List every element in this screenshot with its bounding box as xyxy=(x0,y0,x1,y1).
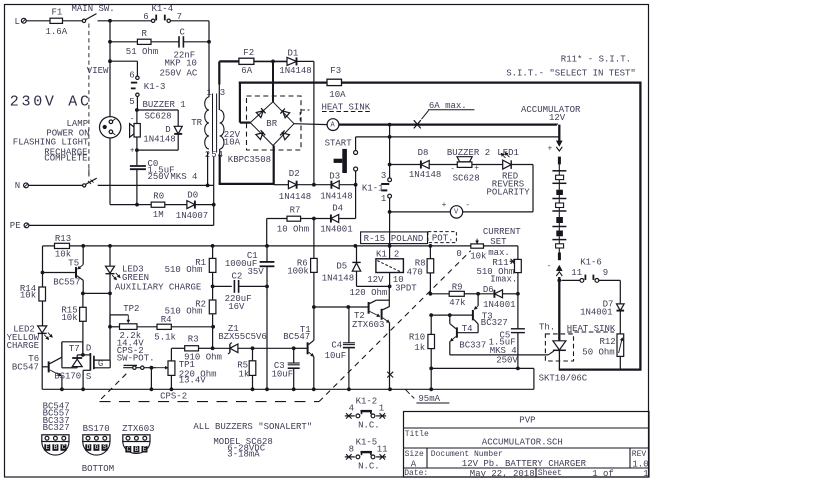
svg-text:D0: D0 xyxy=(187,191,198,201)
svg-text:S: S xyxy=(103,444,107,451)
svg-text:K1-6: K1-6 xyxy=(580,258,602,268)
svg-text:C4: C4 xyxy=(331,341,342,351)
svg-text:VIEW: VIEW xyxy=(87,66,109,76)
svg-text:D3: D3 xyxy=(329,172,340,182)
svg-text:START: START xyxy=(325,139,353,149)
svg-text:POT.: POT. xyxy=(432,234,454,244)
wire bus to START node xyxy=(389,125,391,137)
wire R10 bottom to rail corner xyxy=(431,367,534,369)
svg-text:Title: Title xyxy=(405,430,429,439)
wire R to C xyxy=(151,41,179,43)
svg-text:Sheet: Sheet xyxy=(538,469,562,478)
bridge feed thick wire xyxy=(272,61,274,101)
svg-text:1N4001: 1N4001 xyxy=(320,225,352,235)
svg-text:K1-5: K1-5 xyxy=(356,437,378,447)
svg-text:+: + xyxy=(474,164,479,173)
svg-text:TP1: TP1 xyxy=(179,360,195,370)
svg-text:KBPC3508: KBPC3508 xyxy=(228,155,271,165)
svg-text:BUZZER 1: BUZZER 1 xyxy=(143,100,186,110)
svg-text:SC628: SC628 xyxy=(145,112,172,122)
svg-text:BC337: BC337 xyxy=(459,340,486,350)
wire F2 to D1 node xyxy=(254,60,287,62)
trimmer TP1 220 Ohm xyxy=(170,348,172,361)
svg-text:K1-2: K1-2 xyxy=(356,396,378,406)
svg-text:6A: 6A xyxy=(241,66,252,76)
svg-text:BC327: BC327 xyxy=(481,318,508,328)
svg-text:D: D xyxy=(86,344,91,354)
supply rail wire xyxy=(43,245,55,247)
svg-text:D8: D8 xyxy=(418,148,429,158)
svg-text:250V: 250V xyxy=(496,355,518,365)
svg-text:R10: R10 xyxy=(409,333,425,343)
svg-text:T7: T7 xyxy=(69,344,80,354)
svg-text:ALL BUZZERS "SONALERT": ALL BUZZERS "SONALERT" xyxy=(193,422,312,432)
main positive bus thick to right border xyxy=(342,81,641,83)
svg-text:L: L xyxy=(15,17,20,27)
svg-text:250V AC: 250V AC xyxy=(160,69,198,79)
svg-text:N: N xyxy=(15,181,20,191)
svg-text:2: 2 xyxy=(394,250,399,260)
wire MAIN SW to node xyxy=(98,20,152,22)
svg-text:ACCUMULATOR.SCH: ACCUMULATOR.SCH xyxy=(482,438,563,448)
svg-text:10A: 10A xyxy=(329,90,346,100)
svg-text:C: C xyxy=(180,28,186,38)
svg-text:+: + xyxy=(442,201,447,210)
wire START bottom xyxy=(355,171,357,185)
wire N to TR pin2 xyxy=(98,184,214,186)
svg-text:0: 0 xyxy=(456,249,461,259)
svg-text:SW-POT.: SW-POT. xyxy=(117,354,155,364)
node R-C tap xyxy=(108,40,112,44)
svg-text:K1: K1 xyxy=(376,250,387,260)
svg-text:1N4148: 1N4148 xyxy=(279,192,311,202)
svg-text:Th.: Th. xyxy=(539,323,555,333)
svg-text:12V: 12V xyxy=(367,275,384,285)
svg-text:120 Ohm: 120 Ohm xyxy=(350,288,388,298)
svg-text:MAIN SW.: MAIN SW. xyxy=(72,4,115,14)
svg-text:BR: BR xyxy=(266,119,277,129)
wire N to switch xyxy=(28,184,82,186)
svg-text:COMPLETE: COMPLETE xyxy=(44,154,87,164)
wire TR screen pin5 xyxy=(213,157,215,205)
svg-text:13.4V: 13.4V xyxy=(179,376,207,386)
svg-text:ZTX603: ZTX603 xyxy=(352,320,384,330)
svg-text:3-18mA: 3-18mA xyxy=(227,450,260,460)
wire F1 to MAIN SW xyxy=(63,20,83,22)
svg-text:E: E xyxy=(46,444,50,451)
svg-text:12V: 12V xyxy=(549,113,566,123)
wire LED1 to corner xyxy=(511,164,533,166)
wire L to F1 xyxy=(26,20,50,22)
svg-text:8: 8 xyxy=(349,445,354,455)
svg-text:F3: F3 xyxy=(330,66,341,76)
svg-text:-: - xyxy=(130,114,135,123)
svg-text:10k: 10k xyxy=(470,251,486,261)
wire bridge bottom vertex thick xyxy=(273,146,275,185)
wire D0 to TR pin5 node xyxy=(195,204,214,206)
note box POT dashed xyxy=(428,232,457,243)
svg-text:K1-4: K1-4 xyxy=(152,4,174,14)
switch MAIN SW pole N xyxy=(83,184,86,187)
wire TR pin2 to N xyxy=(207,152,209,185)
svg-text:D5: D5 xyxy=(336,262,347,272)
svg-text:51 Ohm: 51 Ohm xyxy=(126,47,158,57)
wire bus corner to battery + connector xyxy=(556,124,558,125)
svg-text:F2: F2 xyxy=(243,48,254,58)
svg-text:POLAND: POLAND xyxy=(391,234,423,244)
svg-text:10A: 10A xyxy=(224,138,241,148)
svg-text:PVP: PVP xyxy=(519,416,535,426)
X mark on T2 emitter xyxy=(387,372,393,378)
svg-text:510 Ohm: 510 Ohm xyxy=(165,265,203,275)
node L-switched xyxy=(108,19,112,23)
svg-text:TR: TR xyxy=(191,118,202,128)
wire buzzer bottom row xyxy=(135,148,139,152)
wire lamp/C0 to R0 row xyxy=(110,204,137,206)
note box R-15 POLAND xyxy=(361,232,428,244)
title block frame xyxy=(404,412,650,478)
svg-text:R12: R12 xyxy=(600,337,616,347)
svg-text:T4: T4 xyxy=(462,324,473,334)
svg-text:D: D xyxy=(87,444,91,451)
svg-text:MKS 4: MKS 4 xyxy=(170,172,197,182)
svg-text:G: G xyxy=(98,359,103,369)
svg-text:MKP 10: MKP 10 xyxy=(165,59,197,69)
svg-text:1: 1 xyxy=(379,404,384,414)
svg-text:12V Pb. BATTERY CHARGER: 12V Pb. BATTERY CHARGER xyxy=(462,459,587,469)
svg-text:C: C xyxy=(62,444,66,451)
svg-text:D1: D1 xyxy=(288,49,299,59)
svg-text:G: G xyxy=(95,444,99,451)
svg-text:10uF: 10uF xyxy=(272,370,294,380)
svg-text:1k: 1k xyxy=(239,370,250,380)
svg-text:50 Ohm: 50 Ohm xyxy=(582,347,614,357)
node T5 emitter xyxy=(81,292,85,296)
ground/return rail bottom xyxy=(42,388,534,390)
svg-text:1N4148: 1N4148 xyxy=(409,170,441,180)
svg-text:N.C.: N.C. xyxy=(358,421,380,431)
fuse blow mark 6A max xyxy=(414,120,421,128)
svg-text:1M: 1M xyxy=(153,210,164,220)
wire node to R xyxy=(109,21,111,61)
svg-text:D: D xyxy=(165,125,170,135)
ammeter A on heat sink xyxy=(327,119,339,131)
svg-text:K1-1: K1-1 xyxy=(362,184,384,194)
svg-text:R11* - S.I.T.: R11* - S.I.T. xyxy=(561,55,631,65)
svg-text:1N4148: 1N4148 xyxy=(322,273,354,283)
right border return wire thick xyxy=(639,82,641,370)
svg-text:1N4007: 1N4007 xyxy=(176,211,208,221)
wire K1-1 vertical xyxy=(389,137,391,178)
svg-text:-: - xyxy=(450,165,455,174)
svg-text:1N4001: 1N4001 xyxy=(580,308,612,318)
svg-text:TP2: TP2 xyxy=(123,304,139,314)
svg-text:REV: REV xyxy=(632,450,647,459)
svg-text:MKS 4: MKS 4 xyxy=(490,346,517,356)
wire PE to screen xyxy=(29,224,214,226)
wire D3 to START node xyxy=(339,184,355,186)
svg-text:Size: Size xyxy=(405,450,424,459)
svg-text:16V: 16V xyxy=(228,302,245,312)
svg-text:Imax.: Imax. xyxy=(490,275,517,285)
svg-text:10 Ohm: 10 Ohm xyxy=(277,225,309,235)
wire K1-3 to buzzer node xyxy=(136,97,138,111)
wire R7 to rail via C1 column xyxy=(266,219,268,246)
svg-text:N.C.: N.C. xyxy=(358,462,380,472)
svg-text:3PDT: 3PDT xyxy=(395,284,417,294)
wire to K1-3 xyxy=(108,59,112,63)
svg-text:-: - xyxy=(465,201,470,210)
svg-text:510 Ohm: 510 Ohm xyxy=(165,306,203,316)
svg-text:10uF: 10uF xyxy=(325,351,347,361)
svg-text:3: 3 xyxy=(220,88,225,98)
svg-text:BZX55C5V6: BZX55C5V6 xyxy=(218,332,267,342)
fuse F2 6A xyxy=(219,60,239,62)
diode D7 1N4001 xyxy=(619,280,621,304)
svg-text:6: 6 xyxy=(129,70,134,80)
svg-text:ZTX603: ZTX603 xyxy=(122,424,154,434)
mosfet gate box G xyxy=(94,359,110,361)
wire T1 collector to T2 base xyxy=(314,306,348,308)
svg-text:11: 11 xyxy=(377,445,388,455)
svg-text:R-15: R-15 xyxy=(364,234,386,244)
svg-text:R0: R0 xyxy=(153,192,164,202)
wire rail left leg down xyxy=(42,246,44,287)
svg-text:C: C xyxy=(127,446,131,453)
svg-text:E: E xyxy=(143,446,147,453)
wire D5 to K1 coil bottom xyxy=(357,285,390,287)
svg-text:250V: 250V xyxy=(148,172,170,182)
wire battery to thyristor thick xyxy=(558,277,560,341)
svg-text:BC547: BC547 xyxy=(12,362,39,372)
capacitor C0 1.5uF xyxy=(136,150,138,165)
sheet border frame xyxy=(5,5,649,478)
wire R0 to D0 xyxy=(165,204,187,206)
svg-text:BC547: BC547 xyxy=(283,332,310,342)
svg-text:D4: D4 xyxy=(332,204,343,214)
svg-text:R: R xyxy=(142,29,148,39)
svg-text:1k: 1k xyxy=(414,343,425,353)
svg-text:R7: R7 xyxy=(290,206,301,216)
wire K1-4 to TR pin1 xyxy=(170,20,209,22)
wire D1 down xyxy=(297,60,314,62)
main charge bus from ammeter xyxy=(339,123,557,125)
svg-text:1N4001: 1N4001 xyxy=(483,300,515,310)
svg-text:Document Number: Document Number xyxy=(431,450,503,459)
svg-text:C2: C2 xyxy=(232,271,243,281)
svg-text:3: 3 xyxy=(381,171,386,181)
wire START top xyxy=(355,137,357,150)
svg-text:K1-3: K1-3 xyxy=(144,82,166,92)
wire TR pin4 to bridge (thick) xyxy=(219,149,221,155)
lamp neon indicator xyxy=(109,61,111,116)
wire C to TR pin1 line xyxy=(183,41,209,43)
svg-text:SC628: SC628 xyxy=(453,174,480,184)
potentiometer 10k current set xyxy=(476,239,478,244)
svg-text:1: 1 xyxy=(643,469,648,479)
package pinout EBC bottom view xyxy=(42,435,69,442)
pot switch SW-POT contacts xyxy=(123,367,156,369)
bottom return wire thick xyxy=(559,368,642,370)
svg-text:D2: D2 xyxy=(289,169,300,179)
svg-text:1.6A: 1.6A xyxy=(46,27,68,37)
svg-text:S: S xyxy=(86,372,91,382)
svg-text:May 22, 2018: May 22, 2018 xyxy=(470,469,535,479)
svg-text:10k: 10k xyxy=(20,291,36,301)
svg-text:+: + xyxy=(548,144,553,153)
wire TR pin3 to F2 node xyxy=(218,61,220,84)
svg-text:CHARGE: CHARGE xyxy=(7,341,39,351)
svg-text:1N4148: 1N4148 xyxy=(279,66,311,76)
svg-text:T5: T5 xyxy=(68,258,79,268)
svg-text:B: B xyxy=(54,444,58,451)
wire LED3 node down to TP2 xyxy=(109,293,111,326)
svg-text:+: + xyxy=(130,147,135,156)
svg-text:AUXILIARY CHARGE: AUXILIARY CHARGE xyxy=(115,282,201,292)
current note 95mA xyxy=(405,389,409,394)
svg-text:47k: 47k xyxy=(449,298,465,308)
bridge rectifier BR KBPC3508 xyxy=(247,96,302,150)
wire D2 to D3 xyxy=(297,184,332,186)
svg-text:6: 6 xyxy=(143,12,148,22)
svg-text:10k: 10k xyxy=(61,313,77,323)
svg-text:max.: max. xyxy=(488,248,510,258)
svg-text:1N4148: 1N4148 xyxy=(320,192,352,202)
svg-text:A: A xyxy=(411,460,417,470)
module boundary CPS-2 dashed xyxy=(100,374,127,401)
wire R1R2 column xyxy=(212,246,214,259)
svg-text:1N4148: 1N4148 xyxy=(143,135,175,145)
svg-text:1 of: 1 of xyxy=(592,469,614,479)
svg-text:230V AC: 230V AC xyxy=(10,94,92,111)
svg-text:4: 4 xyxy=(349,404,354,414)
svg-text:11: 11 xyxy=(571,268,582,278)
heat sink dashed leader xyxy=(301,109,310,111)
svg-text:BC557: BC557 xyxy=(53,278,80,288)
svg-text:-: - xyxy=(547,262,552,271)
svg-text:F1: F1 xyxy=(52,7,63,17)
svg-text:BOTTOM: BOTTOM xyxy=(82,464,114,474)
svg-text:100k: 100k xyxy=(287,267,309,277)
svg-text:470: 470 xyxy=(407,268,423,278)
mechanical linkage dashed line xyxy=(88,24,90,177)
svg-text:9: 9 xyxy=(603,268,608,278)
svg-text:1: 1 xyxy=(381,194,386,204)
svg-text:Date:: Date: xyxy=(404,469,428,478)
svg-text:S.I.T.- "SELECT IN TEST": S.I.T.- "SELECT IN TEST" xyxy=(506,68,636,78)
wire bridge + to ammeter xyxy=(294,123,327,126)
svg-text:BS170: BS170 xyxy=(83,424,110,434)
svg-text:BS170: BS170 xyxy=(54,371,81,381)
svg-text:5: 5 xyxy=(129,97,134,107)
thyristor gate wire xyxy=(548,351,554,355)
svg-text:PE: PE xyxy=(10,221,21,231)
svg-text:35V: 35V xyxy=(248,267,265,277)
svg-text:CURRENT: CURRENT xyxy=(483,227,521,237)
svg-text:B: B xyxy=(135,446,139,453)
battery cell stack xyxy=(558,157,561,165)
svg-text:1: 1 xyxy=(207,88,212,98)
svg-text:SKT10/06C: SKT10/06C xyxy=(539,373,588,383)
svg-text:POLARITY: POLARITY xyxy=(487,188,531,198)
svg-text:R3: R3 xyxy=(188,335,199,345)
svg-text:FLASHING LIGHT: FLASHING LIGHT xyxy=(13,138,89,148)
svg-text:5.1k: 5.1k xyxy=(154,333,176,343)
svg-text:CPS-2: CPS-2 xyxy=(160,392,187,402)
svg-text:BC327: BC327 xyxy=(43,423,70,433)
